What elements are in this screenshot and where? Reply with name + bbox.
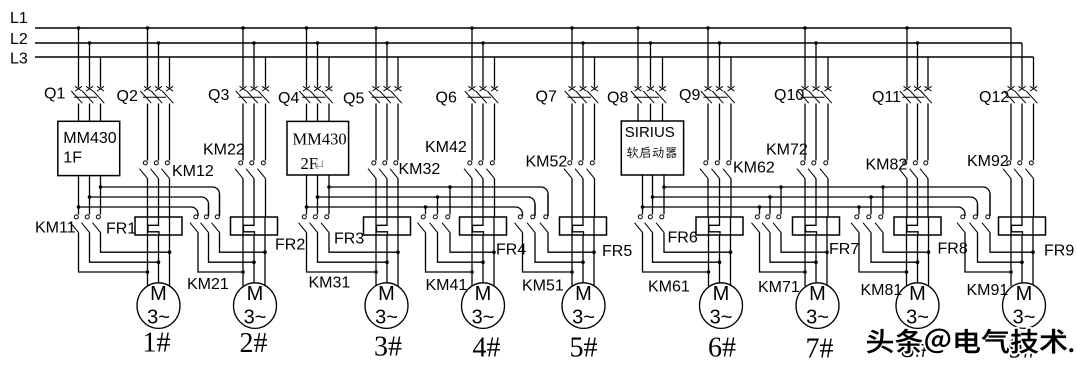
watermark 头条@电气技术 — [867, 329, 1074, 354]
svg-text:FR5: FR5 — [602, 243, 632, 260]
svg-text:SIRIUS: SIRIUS — [625, 124, 675, 141]
node L3 label — [10, 51, 28, 68]
thermal relay FR3 — [334, 217, 411, 248]
motor M5 (5# M 3~) — [562, 283, 605, 329]
contactor KM82 — [866, 104, 929, 218]
svg-text:3#: 3# — [374, 332, 402, 363]
wire bus MM430 1F phase 1 — [99, 185, 220, 216]
contactor KM42 — [425, 104, 495, 218]
wires FR5 to motor 5# — [572, 235, 594, 286]
svg-text:KM72: KM72 — [766, 142, 808, 159]
svg-text:FR6: FR6 — [668, 230, 698, 247]
svg-text:L1: L1 — [10, 10, 28, 27]
svg-text:6#: 6# — [708, 333, 736, 364]
contactor KM12 — [140, 104, 214, 218]
wire bus MM430 1F phase 2 — [88, 195, 209, 216]
contactor KM81 — [851, 185, 930, 299]
svg-text:M: M — [909, 283, 926, 305]
svg-text:KM12: KM12 — [172, 163, 214, 180]
contactor KM71 — [752, 185, 829, 296]
svg-text:Q10: Q10 — [774, 87, 804, 104]
circuit breaker Q3 — [208, 26, 269, 104]
svg-text:5#: 5# — [570, 333, 598, 364]
motor M7 (7# M 3~) — [796, 283, 839, 329]
contactor KM51 — [515, 194, 596, 295]
label motor number 4# — [473, 333, 501, 364]
contactor KM11 — [35, 215, 171, 274]
wires FR1 to motor 1# — [148, 235, 170, 286]
motor M4 (4# M 3~) — [462, 283, 505, 329]
svg-text:M: M — [713, 283, 730, 305]
svg-text:L3: L3 — [10, 51, 28, 68]
svg-text:3~: 3~ — [472, 307, 495, 329]
svg-text:M: M — [1016, 283, 1033, 305]
wire bus SIRIUS phase 3 — [641, 205, 965, 216]
thermal relay FR7 — [793, 217, 860, 258]
circuit breaker Q6 — [436, 26, 499, 106]
wires FR4 to motor 4# — [472, 235, 494, 286]
wire L3 bus — [35, 56, 1034, 58]
wires Q1 to MM430 1F — [79, 104, 101, 122]
svg-text:3~: 3~ — [710, 307, 733, 329]
VFD U2 MM430 2F — [287, 121, 349, 175]
svg-text:Q7: Q7 — [536, 89, 557, 106]
contactor KM52 — [526, 104, 595, 218]
svg-text:Q8: Q8 — [607, 90, 628, 107]
contactor KM41 — [418, 185, 496, 294]
svg-text:MM430: MM430 — [63, 130, 116, 147]
svg-text:M: M — [150, 283, 167, 305]
circuit breaker Q10 — [774, 26, 832, 104]
contactor KM32 — [368, 104, 440, 218]
motor M6 (6# M 3~) — [700, 283, 743, 329]
contactor KM62 — [700, 104, 775, 218]
svg-text:KM22: KM22 — [203, 142, 245, 159]
wires FR7 to motor 7# — [805, 235, 827, 286]
label motor number 7# — [806, 334, 834, 365]
svg-text:KM61: KM61 — [648, 279, 690, 296]
circuit breaker Q1 — [44, 26, 104, 103]
svg-text:FR7: FR7 — [829, 241, 859, 258]
svg-text:Q9: Q9 — [679, 87, 700, 104]
svg-text:KM62: KM62 — [733, 160, 775, 177]
thermal relay FR6 — [668, 217, 744, 247]
label motor number 1# — [143, 328, 171, 359]
svg-text:FR8: FR8 — [938, 241, 968, 258]
wires MM430 2F outputs — [307, 175, 330, 215]
wires FR9 to motor 9# — [1011, 235, 1033, 286]
wires FR8 to motor 8# — [907, 235, 929, 286]
wire bus MM430 2F phase 2 — [316, 195, 535, 216]
svg-text:3~: 3~ — [1013, 307, 1036, 329]
svg-text:4#: 4# — [473, 333, 501, 364]
svg-text:KM42: KM42 — [425, 139, 467, 156]
contactor KM21 — [187, 194, 267, 293]
thermal relay FR1 — [106, 217, 182, 238]
svg-text:FR1: FR1 — [106, 221, 136, 238]
wire bus SIRIUS phase 2 — [651, 195, 978, 216]
svg-text:KM32: KM32 — [399, 161, 441, 178]
wires Q4 to MM430 2F — [307, 104, 330, 122]
label motor number 5# — [570, 333, 598, 364]
svg-text:Q6: Q6 — [436, 90, 457, 107]
svg-text:FR9: FR9 — [1044, 243, 1074, 260]
wires Q8 to SIRIUS — [638, 104, 663, 122]
wire bus SIRIUS phase 1 — [662, 185, 990, 216]
thermal relay FR9 — [999, 217, 1075, 260]
node L1 label — [10, 10, 28, 27]
svg-text:3~: 3~ — [572, 307, 595, 329]
svg-text:3~: 3~ — [906, 307, 929, 329]
wire L1 bus — [35, 27, 1011, 29]
circuit breaker Q7 — [536, 26, 599, 105]
svg-text:KM91: KM91 — [967, 282, 1009, 299]
contactor KM22 — [203, 104, 266, 218]
thermal relay FR8 — [894, 217, 968, 258]
svg-text:1F: 1F — [63, 149, 82, 166]
svg-text:KM41: KM41 — [426, 277, 468, 294]
svg-text:KM11: KM11 — [35, 220, 76, 237]
watermark 头条@电气技术 white halo — [867, 329, 1075, 355]
svg-text:KM52: KM52 — [526, 154, 568, 171]
thermal relay FR5 — [560, 217, 633, 260]
thermal relay FR2 — [231, 217, 306, 254]
circuit breaker Q11 — [872, 26, 932, 106]
svg-text:KM51: KM51 — [522, 278, 564, 295]
svg-text:1#: 1# — [143, 328, 171, 359]
svg-text:M: M — [809, 283, 826, 305]
wire bus MM430 2F phase 1 — [327, 185, 548, 216]
svg-text:KM81: KM81 — [861, 282, 903, 299]
contactor KM31 — [299, 215, 400, 292]
wire L2 bus — [35, 42, 1022, 44]
svg-text:FR2: FR2 — [275, 237, 305, 254]
svg-text:Q5: Q5 — [343, 91, 364, 108]
motor M8 (8# M 3~) — [896, 283, 939, 329]
circuit breaker Q2 — [117, 26, 174, 105]
label motor number 3# — [374, 332, 402, 363]
contactor KM61 — [635, 215, 733, 296]
wire bus MM430 2F phase 3 — [305, 205, 523, 216]
wires FR2 to motor 2# — [243, 235, 265, 286]
svg-text:FR4: FR4 — [496, 242, 526, 259]
wires MM430 1F outputs — [79, 176, 101, 215]
wire bus MM430 1F phase 3 — [77, 205, 198, 216]
svg-text:7#: 7# — [806, 334, 834, 365]
svg-text:Q3: Q3 — [208, 87, 229, 104]
svg-text:Q2: Q2 — [117, 88, 138, 105]
label motor number 2# — [240, 328, 268, 359]
svg-text:KM92: KM92 — [967, 153, 1009, 170]
svg-text:M: M — [378, 283, 395, 305]
svg-text:KM31: KM31 — [309, 275, 351, 292]
motor M9 (9# M 3~) — [1003, 283, 1046, 329]
svg-text:M: M — [247, 283, 264, 305]
svg-text:2#: 2# — [240, 328, 268, 359]
thermal relay FR4 — [460, 217, 527, 259]
circuit breaker Q5 — [343, 26, 402, 107]
label motor number 8# — [901, 333, 929, 364]
svg-text:M: M — [575, 283, 592, 305]
label motor number 6# — [708, 333, 736, 364]
svg-text:2F: 2F — [301, 154, 318, 173]
wires SIRIUS outputs — [643, 175, 665, 215]
svg-text:L2: L2 — [10, 31, 28, 48]
svg-text:MM430: MM430 — [293, 130, 347, 149]
svg-text:3~: 3~ — [147, 307, 170, 329]
soft starter U3 SIRIUS 软启动器 — [621, 121, 683, 175]
svg-text:KM71: KM71 — [758, 279, 800, 296]
svg-text:M: M — [475, 283, 492, 305]
contactor KM92 — [967, 104, 1034, 218]
VFD U1 MM430 1F — [58, 121, 120, 175]
motor M2 (2# M 3~) — [234, 283, 277, 329]
node L2 label — [10, 31, 28, 48]
svg-text:3~: 3~ — [806, 307, 829, 329]
circuit breaker Q4 — [278, 26, 333, 107]
svg-text:3~: 3~ — [375, 307, 398, 329]
circuit breaker Q8 — [607, 26, 666, 106]
circuit breaker Q12 — [979, 28, 1037, 106]
circuit breaker Q9 — [679, 26, 735, 104]
wires FR6 to motor 6# — [709, 235, 731, 286]
contactor KM72 — [766, 104, 828, 218]
svg-text:Q4: Q4 — [278, 90, 299, 107]
svg-text:3~: 3~ — [244, 307, 267, 329]
wires FR3 to motor 3# — [376, 235, 398, 286]
svg-text:FR3: FR3 — [334, 231, 364, 248]
svg-text:KM21: KM21 — [187, 276, 229, 293]
svg-text:Q11: Q11 — [872, 89, 901, 106]
motor M1 (1# M 3~) — [137, 283, 180, 329]
motor M3 (3# M 3~) — [365, 283, 408, 329]
svg-text:Q1: Q1 — [44, 86, 65, 103]
label motor number 9# — [1009, 334, 1037, 365]
contactor KM91 — [957, 194, 1035, 299]
